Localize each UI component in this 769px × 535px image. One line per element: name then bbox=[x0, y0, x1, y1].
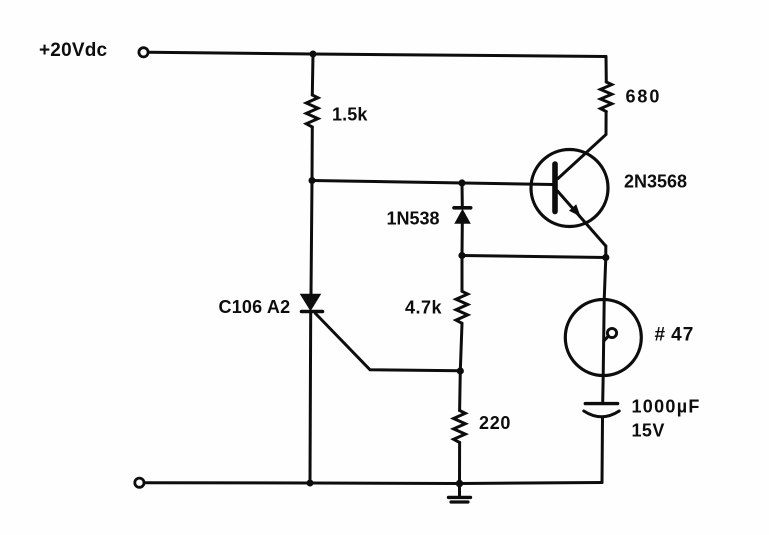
node junction emitter rail left bbox=[458, 252, 465, 259]
wire SCR anode bbox=[311, 181, 312, 294]
resistor 4.7k bbox=[456, 291, 468, 323]
wire SCR gate diagonal bbox=[316, 314, 461, 371]
svg-text:220: 220 bbox=[479, 413, 511, 433]
wire base rail bbox=[312, 181, 553, 185]
node junction diode top bbox=[458, 179, 465, 186]
wire emitter rail bbox=[462, 256, 606, 258]
transistor 2N3568 bbox=[531, 150, 608, 247]
wire below 4.7k bbox=[460, 323, 462, 371]
svg-text:+20Vdc: +20Vdc bbox=[39, 40, 108, 61]
svg-text:1N538: 1N538 bbox=[387, 209, 440, 229]
node junction gate / 4.7k / 220 bbox=[457, 367, 464, 374]
wire emitter down to junction bbox=[604, 246, 607, 258]
resistor 1.5k bbox=[306, 95, 318, 127]
svg-text:15V: 15V bbox=[632, 421, 665, 441]
node junction emitter rail right bbox=[602, 254, 609, 261]
wire top rail bbox=[148, 52, 606, 56]
svg-text:# 47: # 47 bbox=[655, 325, 695, 346]
svg-text:2N3568: 2N3568 bbox=[624, 172, 687, 192]
wire capacitor to bottom rail bbox=[601, 418, 605, 483]
resistor 680 bbox=[601, 82, 612, 112]
wire SCR cathode down bbox=[309, 312, 313, 484]
wire below 1.5k bbox=[311, 127, 314, 181]
wire top of 220 bbox=[458, 371, 462, 411]
wire lamp to capacitor bbox=[601, 376, 605, 403]
SCR C106A2 bbox=[300, 294, 323, 312]
svg-text:C106 A2: C106 A2 bbox=[219, 297, 291, 317]
wire junction to lamp bbox=[604, 258, 606, 301]
node junction top of 1.5k bbox=[310, 51, 317, 58]
terminal input (+20Vdc) bbox=[139, 48, 148, 57]
wire diode cathode down bbox=[461, 224, 464, 256]
capacitor 1000uF 15V bbox=[584, 404, 619, 417]
lamp #47 bbox=[565, 300, 641, 376]
svg-text:1000µF: 1000µF bbox=[632, 397, 701, 417]
svg-text:4.7k: 4.7k bbox=[405, 298, 443, 318]
terminal return (bottom left) bbox=[135, 478, 144, 487]
wire top of 1.5k bbox=[311, 54, 315, 95]
svg-text:1.5k: 1.5k bbox=[332, 105, 368, 125]
wire 680 top bbox=[605, 57, 608, 83]
wire diode anode bbox=[461, 183, 464, 206]
diode 1N538 bbox=[454, 208, 471, 224]
wire below 220 bbox=[458, 443, 461, 484]
wire top of 4.7k bbox=[461, 256, 464, 292]
wire bottom rail bbox=[144, 483, 602, 484]
resistor 220 bbox=[454, 411, 466, 443]
wire 680 to collector bbox=[558, 112, 606, 179]
node junction ground bbox=[456, 480, 463, 487]
node junction bottom of SCR branch bbox=[307, 480, 314, 487]
ground bbox=[449, 484, 471, 503]
node junction base node bbox=[309, 177, 316, 184]
svg-text:680: 680 bbox=[626, 87, 662, 107]
